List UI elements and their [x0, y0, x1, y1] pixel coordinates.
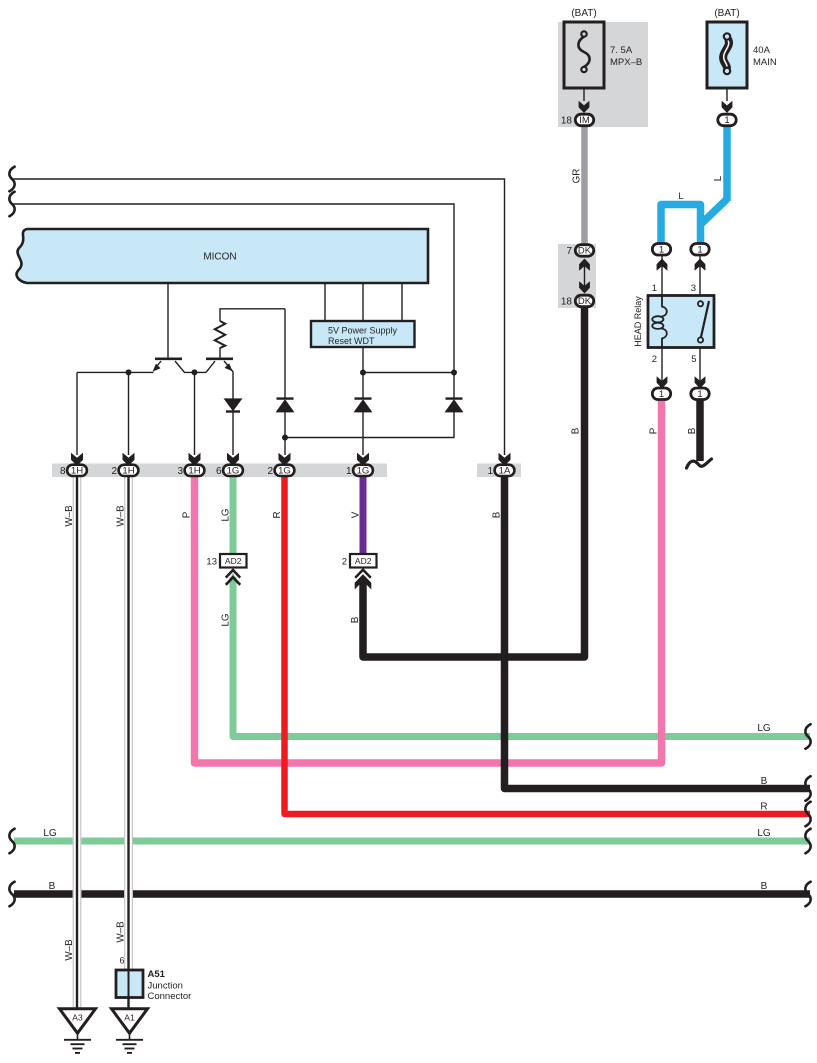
svg-text:18: 18: [561, 297, 573, 308]
svg-text:LG: LG: [757, 828, 771, 839]
svg-text:HEAD Relay: HEAD Relay: [633, 296, 643, 347]
svg-text:1A: 1A: [499, 465, 511, 476]
svg-text:1G: 1G: [227, 465, 240, 476]
svg-text:W–B: W–B: [64, 505, 75, 527]
svg-text:W–B: W–B: [115, 921, 126, 943]
svg-text:GR: GR: [571, 169, 582, 184]
svg-text:5: 5: [691, 354, 696, 365]
svg-text:A3: A3: [72, 1013, 83, 1023]
svg-text:LG: LG: [220, 508, 231, 521]
svg-text:Reset WDT: Reset WDT: [328, 336, 375, 346]
svg-text:IM: IM: [579, 115, 590, 126]
svg-text:R: R: [272, 511, 283, 518]
svg-text:R: R: [760, 802, 767, 813]
svg-text:13: 13: [206, 557, 217, 568]
svg-text:1: 1: [346, 466, 352, 477]
svg-text:V: V: [350, 511, 361, 518]
svg-text:(BAT): (BAT): [571, 8, 596, 19]
svg-text:LG: LG: [43, 828, 57, 839]
svg-text:1: 1: [697, 244, 702, 255]
svg-text:40A: 40A: [753, 45, 771, 56]
svg-text:W–B: W–B: [115, 505, 126, 527]
svg-text:B: B: [761, 881, 768, 892]
svg-text:2: 2: [267, 466, 273, 477]
svg-text:P: P: [182, 511, 193, 518]
svg-text:7. 5A: 7. 5A: [610, 45, 633, 56]
svg-text:LG: LG: [220, 613, 231, 626]
svg-text:7: 7: [566, 246, 572, 257]
svg-text:A1: A1: [124, 1013, 135, 1023]
svg-text:W–B: W–B: [64, 939, 75, 961]
svg-text:B: B: [49, 881, 56, 892]
svg-text:1: 1: [487, 466, 493, 477]
svg-text:6: 6: [216, 466, 222, 477]
svg-text:A51: A51: [148, 969, 166, 980]
svg-text:B: B: [492, 511, 503, 518]
svg-text:B: B: [350, 616, 361, 623]
svg-text:B: B: [761, 776, 768, 787]
svg-text:MAIN: MAIN: [753, 57, 777, 68]
svg-text:Connector: Connector: [148, 991, 192, 1002]
svg-text:DK: DK: [578, 246, 592, 257]
svg-text:1G: 1G: [357, 465, 370, 476]
svg-text:1: 1: [659, 389, 664, 400]
svg-text:LG: LG: [757, 723, 771, 734]
svg-text:5V Power Supply: 5V Power Supply: [328, 326, 398, 336]
svg-text:2: 2: [342, 557, 347, 568]
svg-text:L: L: [678, 191, 683, 202]
svg-text:B: B: [571, 427, 582, 434]
svg-text:MPX–B: MPX–B: [610, 57, 642, 68]
svg-text:2: 2: [652, 354, 657, 365]
svg-text:1H: 1H: [122, 465, 134, 476]
svg-text:AD2: AD2: [355, 556, 372, 566]
svg-text:3: 3: [691, 283, 696, 294]
svg-text:1: 1: [724, 115, 729, 126]
svg-text:1G: 1G: [278, 465, 291, 476]
svg-text:1: 1: [697, 389, 702, 400]
svg-text:1H: 1H: [71, 465, 83, 476]
svg-text:AD2: AD2: [225, 556, 242, 566]
svg-text:1: 1: [652, 283, 657, 294]
svg-text:1H: 1H: [188, 465, 200, 476]
svg-text:2: 2: [111, 466, 117, 477]
svg-text:6: 6: [119, 956, 124, 966]
svg-text:DK: DK: [578, 296, 592, 307]
svg-text:1: 1: [659, 244, 664, 255]
svg-text:8: 8: [60, 466, 66, 477]
svg-text:MICON: MICON: [203, 252, 236, 263]
svg-text:18: 18: [561, 116, 573, 127]
svg-text:P: P: [649, 427, 660, 434]
svg-text:3: 3: [177, 466, 183, 477]
svg-text:(BAT): (BAT): [714, 8, 739, 19]
svg-text:B: B: [687, 427, 698, 434]
svg-text:Junction: Junction: [148, 981, 183, 992]
svg-text:L: L: [713, 175, 724, 181]
